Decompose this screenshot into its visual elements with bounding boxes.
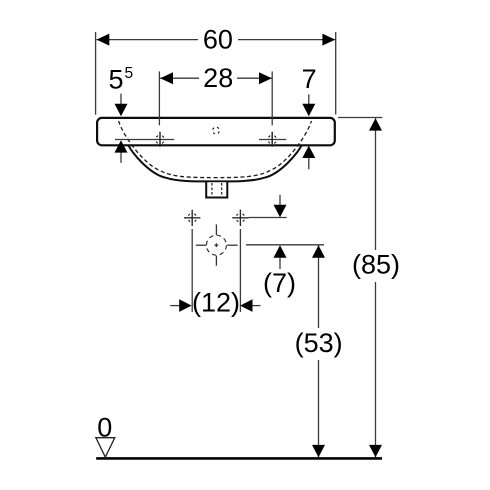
svg-text:5: 5 <box>125 65 134 82</box>
svg-text:60: 60 <box>203 25 233 55</box>
svg-text:5: 5 <box>109 65 124 95</box>
svg-text:(53): (53) <box>295 328 343 358</box>
svg-text:0: 0 <box>97 413 112 443</box>
svg-text:7: 7 <box>302 64 317 94</box>
svg-text:(85): (85) <box>352 250 400 280</box>
svg-text:(12): (12) <box>192 288 240 318</box>
svg-text:28: 28 <box>203 63 233 93</box>
svg-text:(7): (7) <box>263 268 296 298</box>
